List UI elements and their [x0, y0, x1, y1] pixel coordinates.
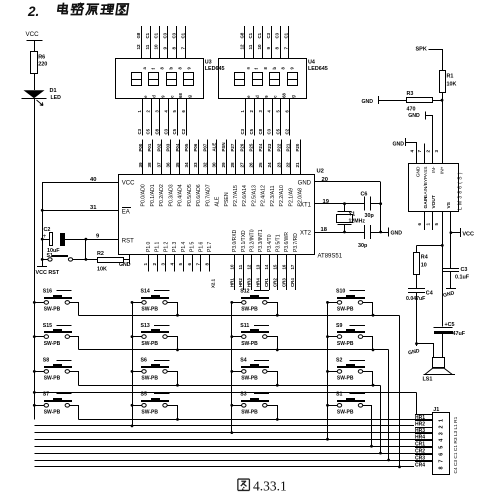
- wire pin 13 P3.3/INT1: [260, 255, 262, 290]
- svg-text:10: 10: [257, 44, 262, 50]
- display module U4 LED645 body: [219, 59, 307, 99]
- svg-text:P25: P25: [249, 143, 254, 151]
- svg-text:HR4: HR4: [255, 278, 260, 287]
- svg-text:10K: 10K: [97, 267, 107, 273]
- svg-text:GND: GND: [362, 99, 374, 105]
- digit 4 of U4: [288, 73, 298, 86]
- wire pin 37 P0.2/AD2: [161, 140, 163, 175]
- svg-text:ALE: ALE: [212, 143, 217, 152]
- svg-text:C5: C5: [249, 128, 254, 134]
- svg-text:CR3: CR3: [281, 278, 286, 287]
- wire: [380, 386, 382, 454]
- wire top pin 8 of U4: [280, 26, 282, 59]
- wire keypad column 4: [327, 302, 329, 439]
- svg-text:SW-PB: SW-PB: [241, 341, 258, 347]
- svg-text:P2.2/A10: P2.2/A10: [279, 185, 285, 206]
- svg-text:LM386(S): LM386(S): [458, 170, 464, 210]
- wire top pin 11 of U3: [150, 26, 152, 59]
- svg-text:30: 30: [212, 162, 217, 168]
- wire to speaker: [415, 342, 418, 345]
- ground for R3: [379, 100, 407, 102]
- wire: [232, 302, 242, 304]
- wire pin 1 P1.0: [148, 255, 150, 272]
- svg-text:C5: C5: [172, 128, 177, 134]
- svg-text:P26: P26: [239, 143, 244, 151]
- wire bottom pin 1 of U4: [245, 99, 247, 136]
- svg-text:U3: U3: [205, 60, 212, 66]
- display module U3 LED645 body: [116, 59, 204, 99]
- svg-text:C3: C3: [275, 32, 280, 38]
- svg-text:LED645: LED645: [205, 66, 225, 72]
- svg-text:39: 39: [138, 162, 143, 168]
- svg-text:d: d: [152, 95, 157, 98]
- svg-text:26: 26: [249, 162, 254, 168]
- svg-text:C5: C5: [146, 128, 151, 134]
- svg-text:32: 32: [202, 162, 207, 168]
- wire pin 4 GND of U5: [406, 143, 417, 164]
- svg-text:C3: C3: [240, 128, 245, 134]
- capacitor C5 47uF electrolytic: [434, 327, 453, 329]
- svg-text:P02: P02: [156, 143, 161, 151]
- svg-text:CR2: CR2: [415, 449, 425, 455]
- resistor R3 470: [407, 98, 433, 103]
- wire bottom pin 4 of U4: [272, 99, 274, 136]
- svg-text:7: 7: [417, 150, 422, 153]
- heading title dian-lu-yuan-li-tu (circuit schematic) glyphs: [57, 4, 128, 15]
- svg-text:S12: S12: [240, 289, 249, 295]
- svg-text:P0.2/AD2: P0.2/AD2: [159, 184, 165, 206]
- svg-text:P1.2: P1.2: [163, 241, 169, 252]
- svg-text:P24: P24: [258, 143, 263, 151]
- wire: [267, 303, 278, 316]
- svg-text:P0.3/AD3: P0.3/AD3: [168, 184, 174, 206]
- wire pin 12 P3.2/INT0: [251, 255, 253, 290]
- svg-text:C4 C3 C1 C1 R3 L3 L1 R1: C4 C3 C1 C1 R3 L3 L1 R1: [453, 416, 459, 473]
- svg-text:12: 12: [247, 264, 252, 269]
- svg-text:PSN: PSN: [221, 142, 226, 151]
- svg-text:R3: R3: [407, 91, 414, 97]
- svg-text:g: g: [187, 95, 192, 98]
- wire: [232, 405, 242, 407]
- wire pin 7 BYPASS of U5: [424, 144, 426, 164]
- svg-text:P3.3/INT1: P3.3/INT1: [258, 229, 264, 252]
- svg-text:28: 28: [230, 162, 235, 168]
- wire pin 8 VS of U5: [450, 211, 452, 232]
- svg-text:34: 34: [184, 162, 189, 168]
- svg-text:P0.5/AD5: P0.5/AD5: [187, 184, 193, 206]
- svg-text:8: 8: [275, 47, 280, 50]
- svg-text:C5: C5: [276, 128, 281, 134]
- svg-text:18: 18: [321, 227, 328, 233]
- svg-text:SW-PB: SW-PB: [141, 307, 158, 313]
- svg-text:19: 19: [323, 199, 330, 205]
- wire pin 35 P0.4/AD4: [179, 140, 181, 175]
- svg-text:4: 4: [439, 439, 445, 442]
- svg-text:12MHz: 12MHz: [349, 219, 366, 225]
- svg-text:P1.6: P1.6: [198, 241, 204, 252]
- svg-text:35: 35: [175, 162, 180, 168]
- svg-text:SW-PB: SW-PB: [241, 410, 258, 416]
- svg-text:10: 10: [229, 264, 234, 269]
- svg-text:RST: RST: [122, 238, 134, 244]
- svg-text:4: 4: [169, 263, 174, 266]
- svg-text:C1: C1: [180, 32, 185, 38]
- wire pin 38 P0.1/AD1: [152, 140, 154, 175]
- svg-text:VS: VS: [446, 201, 452, 208]
- svg-text:P04: P04: [175, 143, 180, 151]
- wire pin 30 ALE: [216, 140, 218, 175]
- wire top pin 10 of U4: [262, 26, 264, 59]
- wire top pin 9 of U4: [271, 26, 273, 59]
- svg-text:47uF: 47uF: [453, 331, 466, 337]
- svg-text:8: 8: [439, 467, 445, 470]
- svg-text:GND: GND: [415, 166, 421, 177]
- wire keypad column 1: [34, 302, 36, 419]
- svg-text:R6: R6: [38, 55, 45, 61]
- svg-text:CR4: CR4: [415, 462, 425, 468]
- svg-text:22: 22: [286, 162, 291, 168]
- svg-text:SW-PB: SW-PB: [337, 307, 354, 313]
- ground below C4: [416, 344, 418, 347]
- svg-text:3: 3: [434, 150, 439, 153]
- svg-text:2: 2: [439, 426, 445, 429]
- svg-text:HR2: HR2: [415, 421, 425, 427]
- wire: [168, 337, 178, 350]
- svg-text:P20: P20: [295, 143, 300, 151]
- svg-text:C3: C3: [137, 128, 142, 134]
- wire bus HR1: [78, 419, 432, 421]
- svg-text:11: 11: [238, 264, 243, 269]
- svg-text:20: 20: [322, 177, 328, 183]
- wire: [380, 182, 382, 232]
- svg-text:P0.7/AD7: P0.7/AD7: [205, 184, 211, 206]
- svg-text:GND: GND: [392, 141, 404, 147]
- svg-text:6: 6: [439, 453, 445, 456]
- wire left rail down to keypad: [34, 99, 36, 303]
- wire: [34, 371, 44, 373]
- svg-text:HR2: HR2: [238, 278, 243, 287]
- svg-text:12: 12: [239, 44, 244, 50]
- svg-text:S13: S13: [141, 323, 150, 329]
- svg-text:HR1: HR1: [229, 278, 234, 287]
- wire pin 7 P1.6: [200, 255, 202, 272]
- IC U5 LM386 body: [409, 164, 459, 212]
- wire bus HR3: [34, 432, 432, 434]
- svg-text:+C5: +C5: [445, 322, 455, 328]
- svg-text:P21: P21: [286, 143, 291, 151]
- wire: [363, 337, 373, 350]
- svg-text:37: 37: [156, 162, 161, 168]
- svg-text:C3: C3: [171, 32, 176, 38]
- svg-text:SW-PB: SW-PB: [337, 376, 354, 382]
- wire: [416, 292, 418, 344]
- svg-text:1: 1: [425, 223, 430, 226]
- svg-text:C3: C3: [267, 128, 272, 134]
- resistor R4 10: [416, 245, 418, 253]
- svg-text:P27: P27: [230, 143, 235, 151]
- wire pin 28 P2.7/A15: [235, 140, 237, 175]
- svg-text:220: 220: [38, 62, 47, 68]
- svg-text:R4: R4: [421, 255, 428, 261]
- svg-text:23: 23: [276, 162, 281, 168]
- capacitor C3 0.1uF: [450, 233, 452, 269]
- resistor R1 10K: [440, 71, 446, 93]
- svg-text:SW-PB: SW-PB: [241, 376, 258, 382]
- svg-text:27: 27: [239, 162, 244, 168]
- wire: [328, 336, 338, 338]
- svg-text:PSEN: PSEN: [224, 192, 230, 206]
- wire pin 1 of U5: [432, 211, 434, 230]
- svg-text:C6: C6: [361, 192, 368, 198]
- wire pin 19 XT1: [314, 203, 364, 205]
- wire VOUT node: [441, 244, 444, 247]
- wire bus CR3: [34, 460, 432, 462]
- svg-text:5: 5: [434, 223, 439, 226]
- svg-text:0.047uF: 0.047uF: [406, 296, 425, 302]
- svg-text:24: 24: [267, 162, 272, 168]
- svg-text:J1: J1: [433, 407, 439, 413]
- wire: [416, 275, 418, 288]
- svg-text:SW-PB: SW-PB: [141, 341, 158, 347]
- svg-text:R1: R1: [447, 74, 454, 80]
- svg-text:C4: C4: [426, 291, 433, 297]
- wire pin 24 P2.3/A11: [272, 140, 274, 175]
- wire: [34, 405, 44, 407]
- wire bottom pin 6 of U3: [186, 99, 188, 136]
- svg-text:P0.6/AD6: P0.6/AD6: [196, 184, 202, 206]
- svg-text:S4: S4: [240, 358, 246, 364]
- wire pin 6 of U5: [424, 211, 426, 230]
- wire pin 14 P3.4/T0: [269, 255, 271, 290]
- wire: [168, 372, 178, 386]
- svg-text:P07: P07: [202, 143, 207, 151]
- svg-text:P2.5/A13: P2.5/A13: [251, 185, 257, 206]
- wire top pin 12 of U4: [244, 26, 246, 59]
- svg-text:21: 21: [295, 162, 300, 168]
- svg-text:16: 16: [281, 264, 286, 269]
- svg-text:X2.1: X2.1: [211, 278, 216, 288]
- svg-text:S6: S6: [141, 358, 147, 364]
- svg-text:R2: R2: [97, 251, 104, 257]
- svg-text:P00: P00: [138, 143, 143, 151]
- svg-text:8: 8: [171, 47, 176, 50]
- svg-text:P2.4/A12: P2.4/A12: [261, 185, 267, 206]
- capacitor C6 30p: [364, 197, 366, 211]
- wire: [328, 302, 338, 304]
- svg-text:4: 4: [410, 150, 415, 153]
- svg-text:P1.4: P1.4: [181, 241, 187, 252]
- wire row 4 return line: [33, 391, 36, 394]
- svg-text:GND: GND: [408, 113, 420, 119]
- svg-text:1: 1: [439, 419, 445, 422]
- wire top pin 7 of U3: [185, 26, 187, 59]
- wire pin 22 P2.1/A9: [290, 140, 292, 175]
- svg-text:C8: C8: [258, 128, 263, 134]
- svg-text:P1.7: P1.7: [207, 241, 213, 252]
- wire pin 17 P3.7/RD: [295, 255, 297, 290]
- svg-text:5: 5: [178, 263, 183, 266]
- svg-text:P22: P22: [276, 143, 281, 151]
- wire pin 34 P0.5/AD5: [189, 140, 191, 175]
- wire: [267, 337, 278, 350]
- wire bottom pin 2 of U3: [151, 99, 153, 136]
- svg-text:S11: S11: [240, 323, 249, 329]
- svg-text:+: +: [43, 234, 47, 240]
- wire top pin 7 of U4: [288, 26, 290, 59]
- wire pin 4 P1.3: [174, 255, 176, 272]
- svg-text:P0.0/AD0: P0.0/AD0: [141, 184, 147, 206]
- svg-text:40: 40: [90, 177, 96, 183]
- wire: [70, 337, 79, 350]
- wire pin 2 P1.1: [157, 255, 159, 272]
- wire: [267, 372, 278, 386]
- digit 1 of U3: [132, 73, 142, 86]
- wire row 3 line: [78, 385, 380, 387]
- svg-text:GND: GND: [391, 231, 403, 237]
- ground for C3: [450, 272, 452, 288]
- wire: [168, 303, 178, 316]
- svg-text:2: 2: [425, 150, 430, 153]
- wire bottom pin 3 of U3: [159, 99, 161, 136]
- svg-text:C1: C1: [154, 32, 159, 38]
- svg-text:P3.2/INT0: P3.2/INT0: [249, 229, 255, 252]
- svg-text:C3: C3: [266, 32, 271, 38]
- wire bus HR4: [34, 439, 432, 441]
- svg-text:HR3: HR3: [247, 278, 252, 287]
- wire: [267, 406, 278, 420]
- svg-text:VCC: VCC: [462, 232, 474, 238]
- wire: [399, 316, 401, 467]
- svg-text:P2.7/A15: P2.7/A15: [233, 185, 239, 206]
- wire bus CR1: [34, 446, 432, 448]
- crystal Y1 12MHz: [343, 202, 346, 205]
- svg-text:D1: D1: [50, 88, 57, 94]
- wire pin 20 GND: [314, 181, 381, 183]
- wire: [363, 372, 373, 386]
- svg-text:P06: P06: [193, 143, 198, 151]
- wire pin 21 P2.0/A8: [300, 140, 302, 175]
- svg-text:IN+: IN+: [440, 166, 446, 174]
- svg-text:CR2: CR2: [273, 278, 278, 287]
- wire pin 31 EA: [41, 209, 44, 212]
- svg-text:7: 7: [284, 47, 289, 50]
- svg-text:3: 3: [161, 263, 166, 266]
- svg-text:P1.1: P1.1: [155, 241, 161, 252]
- svg-text:P3.6/WR: P3.6/WR: [284, 232, 290, 252]
- wire: [132, 405, 142, 407]
- svg-text:10K: 10K: [447, 82, 457, 88]
- digit 2 of U3: [149, 73, 159, 86]
- wire pin 23 P2.2/A10: [281, 140, 283, 175]
- svg-text:GAIN/BYPASS: GAIN/BYPASS: [423, 167, 429, 199]
- wire keypad column 2: [132, 302, 134, 426]
- svg-text:C2: C2: [44, 227, 51, 233]
- svg-text:6: 6: [187, 263, 192, 266]
- wire pin 16 P3.6/WR: [286, 255, 288, 290]
- wire pin 11 P3.1/TXD: [243, 255, 245, 290]
- wire bottom pin 4 of U3: [168, 99, 170, 136]
- svg-text:33: 33: [193, 162, 198, 168]
- svg-text:G8: G8: [239, 32, 244, 38]
- svg-text:P2.1/A9: P2.1/A9: [288, 188, 294, 207]
- svg-text:C1: C1: [257, 32, 262, 38]
- wire: [132, 336, 142, 338]
- wire top pin 9 of U3: [167, 26, 169, 59]
- svg-text:CR1: CR1: [415, 442, 425, 448]
- digit 2 of U4: [253, 73, 263, 86]
- wire: [132, 302, 142, 304]
- svg-text:P0.1/AD1: P0.1/AD1: [150, 184, 156, 206]
- svg-text:4.33.1: 4.33.1: [253, 479, 287, 494]
- wire bottom pin 5 of U4: [280, 99, 282, 136]
- svg-text:GND: GND: [298, 180, 312, 186]
- wire pin 27 P2.6/A14: [244, 140, 246, 175]
- svg-text:30p: 30p: [358, 243, 368, 249]
- svg-text:GND: GND: [119, 262, 131, 268]
- wire bottom pin 2 of U4: [254, 99, 256, 136]
- resistor R2 10K: [86, 259, 98, 261]
- svg-text:7: 7: [439, 460, 445, 463]
- svg-text:HR3: HR3: [415, 428, 425, 434]
- VCC RST power marker: [37, 266, 47, 268]
- svg-text:LED: LED: [51, 95, 62, 101]
- digit 3 of U4: [270, 73, 280, 86]
- digit 4 of U3: [184, 73, 194, 86]
- svg-text:P2.0/A8: P2.0/A8: [298, 188, 304, 207]
- svg-text:LS1: LS1: [423, 376, 433, 382]
- wire: [363, 303, 373, 316]
- svg-text:HR4: HR4: [415, 435, 425, 441]
- capacitor 30p lower: [364, 225, 366, 239]
- svg-text:VOUT: VOUT: [431, 195, 437, 208]
- svg-text:9: 9: [266, 47, 271, 50]
- svg-text:SW-PB: SW-PB: [141, 410, 158, 416]
- svg-text:SW-PB: SW-PB: [44, 341, 61, 347]
- svg-text:P2.6/A14: P2.6/A14: [242, 185, 248, 206]
- svg-text:S15: S15: [43, 323, 52, 329]
- svg-text:470: 470: [407, 107, 416, 113]
- svg-text:P03: P03: [166, 143, 171, 151]
- svg-text:P2.3/A11: P2.3/A11: [270, 185, 276, 206]
- svg-text:C1: C1: [284, 32, 289, 38]
- svg-text:S14: S14: [141, 289, 150, 295]
- svg-text:P23: P23: [267, 143, 272, 151]
- svg-text:15: 15: [273, 264, 278, 269]
- svg-text:7: 7: [180, 47, 185, 50]
- wire pin 39 P0.0/AD0: [142, 140, 144, 175]
- svg-text:C1: C1: [248, 32, 253, 38]
- wire: [388, 350, 390, 461]
- wire pin 3 P1.2: [165, 255, 167, 272]
- wire bottom pin 6 of U4: [289, 99, 291, 136]
- wire pin 15 P3.5/T1: [277, 255, 279, 290]
- wire: [34, 73, 36, 90]
- svg-text:6: 6: [417, 223, 422, 226]
- ground for R2: [124, 259, 130, 261]
- svg-text:9: 9: [163, 47, 168, 50]
- svg-text:U4: U4: [308, 60, 315, 66]
- wire top pin 10 of U3: [159, 26, 161, 59]
- wire pin 2 IN- of U5: [426, 116, 433, 164]
- svg-text:11: 11: [248, 44, 253, 49]
- svg-text:P1.5: P1.5: [190, 241, 196, 252]
- wire bus CR4: [34, 466, 432, 468]
- svg-text:5: 5: [439, 446, 445, 449]
- wire top pin 12 of U3: [141, 26, 143, 59]
- wire: [70, 303, 79, 316]
- wire: [328, 371, 338, 373]
- svg-text:7: 7: [196, 263, 201, 266]
